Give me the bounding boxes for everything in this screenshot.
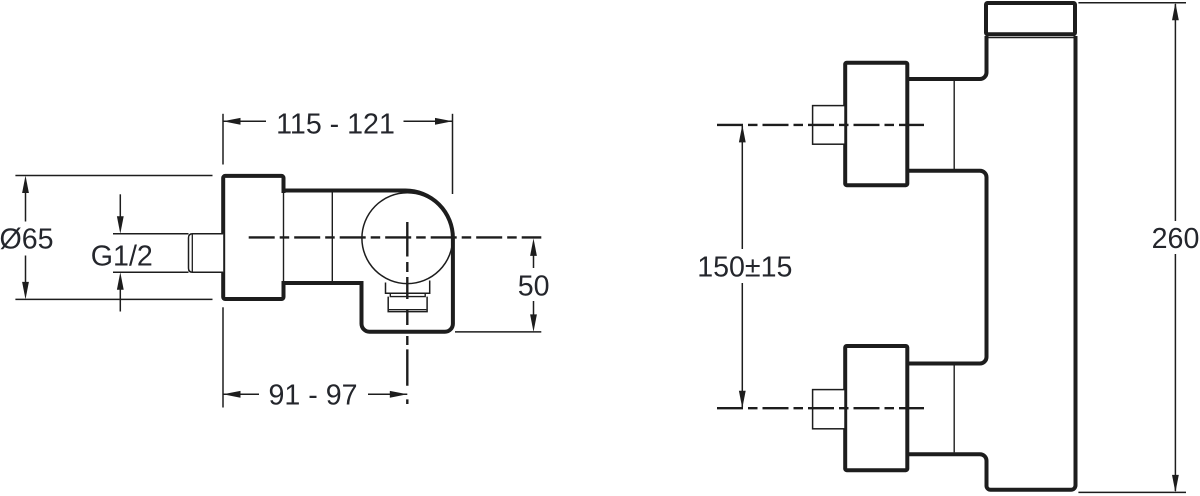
body outline (thick) [284, 191, 453, 332]
thin line under cap [988, 37, 1074, 39]
dim 115-121 extension line left [222, 114, 224, 165]
svg-text:91 - 97: 91 - 97 [268, 380, 357, 412]
thin joint line neck/body [331, 191, 333, 283]
top mounting block [845, 63, 907, 186]
aerator inner line [389, 309, 427, 311]
dim 91-97 line [223, 393, 407, 395]
arrow down to G1/2 top [117, 216, 124, 234]
bottom mounting block [845, 346, 907, 470]
arrow right 91-97 [390, 391, 408, 398]
dim O65 extension bottom [15, 298, 212, 300]
dim 91-97 extension left [222, 307, 224, 407]
svg-text:G1/2: G1/2 [91, 241, 153, 273]
dim 115-121 extension line right [452, 114, 454, 194]
arrow left 91-97 [223, 391, 241, 398]
dim O65 line segments [25, 191, 27, 284]
arrow right of 115-121 [435, 118, 453, 125]
dim 115-121 line [223, 120, 453, 122]
dim O65 extension top [15, 175, 212, 177]
svg-text:115 - 121: 115 - 121 [276, 109, 395, 141]
arrow up to G1/2 bottom [117, 272, 124, 290]
arrow left of 115-121 [223, 118, 241, 125]
arrow down 50 [530, 314, 537, 332]
aerator upper block [386, 281, 430, 294]
dim G1/2 extension bottom [113, 271, 189, 273]
wall plate [223, 176, 283, 299]
svg-text:260: 260 [1152, 223, 1200, 255]
arrow up 260 [1172, 3, 1179, 21]
arrow down 150 [739, 391, 746, 409]
bottom centerline [717, 407, 924, 409]
bottom fitting [813, 390, 845, 429]
svg-text:50: 50 [518, 271, 550, 303]
aerator nozzle [388, 297, 427, 312]
dim 260 extension top [1078, 2, 1186, 4]
knob circle (cartridge cap) [362, 193, 453, 284]
aerator washer band [390, 293, 425, 296]
svg-text:Ø65: Ø65 [0, 224, 54, 256]
arrow down O65 [22, 282, 29, 300]
svg-text:150±15: 150±15 [697, 251, 792, 283]
vertical centerline left view [406, 222, 408, 404]
dim 260 line segments [1174, 4, 1176, 491]
G1/2 inlet fitting [189, 234, 224, 272]
column body outline [907, 36, 1075, 490]
joint cover over plate right edge [281, 193, 285, 281]
arrow up O65 [22, 176, 29, 194]
thin joint line top arm [953, 81, 955, 170]
dim 260 extension bottom [1078, 491, 1186, 493]
dim G1/2 extension top [113, 233, 189, 235]
thin joint line plate/body [283, 193, 285, 281]
dim 50 centerline stub handled by h centerline; extension bottom [455, 331, 541, 333]
dim 150+-15 line segments [741, 126, 743, 407]
thin joint line bottom arm [953, 365, 955, 452]
dim G1/2 arrows shafts [119, 194, 121, 311]
dim 50 line segments [533, 254, 535, 316]
arrow up 150 [739, 125, 746, 142]
top centerline [717, 124, 924, 126]
top fitting [813, 106, 845, 145]
arrow down 260 [1172, 475, 1179, 493]
arrow up 50 [530, 238, 537, 256]
top cap [986, 3, 1075, 34]
horizontal centerline left view [249, 236, 542, 238]
